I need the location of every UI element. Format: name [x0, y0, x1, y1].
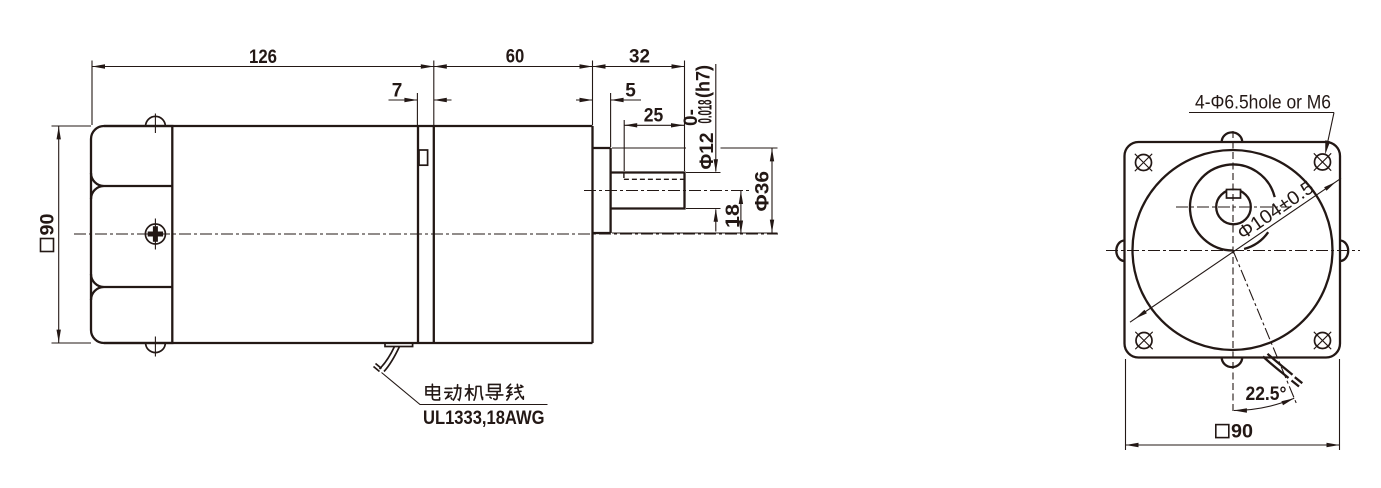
- front wires strand 1: [1263, 357, 1289, 379]
- corner hole TR: [1315, 154, 1331, 170]
- bottom tab: [1222, 358, 1243, 368]
- label leader: [1326, 113, 1334, 151]
- corner hole TL: [1136, 155, 1152, 171]
- shaft centerline: [584, 190, 752, 192]
- shaft keyway flat hidden line: [624, 173, 684, 179]
- front wire stripped tip 1: [1292, 381, 1300, 387]
- gearhead right edge: [591, 126, 593, 343]
- svg-text:60: 60: [506, 47, 525, 68]
- dim text phi12 0/-0.018 (h7) rotated: [681, 65, 718, 170]
- dim phi12 h7: [686, 172, 721, 174]
- svg-text:UL1333,18AWG: UL1333,18AWG: [423, 408, 545, 429]
- svg-text:22.5°: 22.5°: [1246, 384, 1287, 405]
- svg-text:25: 25: [644, 106, 664, 127]
- svg-text:90: 90: [1231, 422, 1253, 443]
- svg-text:Φ36: Φ36: [753, 171, 774, 212]
- svg-text:32: 32: [629, 47, 650, 68]
- phillips screw circle: [145, 224, 165, 244]
- svg-text:90: 90: [38, 214, 59, 236]
- svg-text:5: 5: [625, 81, 636, 102]
- phillips screw cross: [148, 226, 163, 241]
- shaft boss circle arc small: [1244, 232, 1268, 249]
- motor body bottom edge: [104, 342, 593, 344]
- phillips screw vertical center mark: [154, 219, 156, 250]
- bottom screw center mark: [154, 337, 156, 357]
- svg-text:126: 126: [249, 47, 277, 68]
- dim square90 left: [52, 125, 92, 127]
- svg-text:(h7): (h7): [694, 65, 715, 98]
- 22.5 degree diagonal centerline: [1233, 251, 1296, 404]
- shaft boss circle arc main: [1190, 165, 1275, 251]
- dim text square90 rotated: [38, 214, 59, 252]
- top screw center mark: [154, 114, 156, 134]
- motor rear cap outline: [91, 126, 172, 343]
- right tab: [1340, 240, 1348, 261]
- dim extension at x684.5 (shaft end): [684, 61, 686, 172]
- output shaft boss: [593, 148, 611, 233]
- front wire stripped tip 2: [1295, 377, 1303, 383]
- bottom screw dome: [146, 343, 166, 353]
- output shaft: [611, 173, 685, 209]
- svg-text:7: 7: [392, 81, 403, 102]
- corner hole BL: [1136, 333, 1152, 349]
- label underline: [1189, 112, 1334, 114]
- shaft horizontal centerline front: [1176, 206, 1291, 208]
- motor centerline: [74, 233, 778, 235]
- svg-text:0.018: 0.018: [696, 100, 717, 124]
- dim 22.5 arc: [1234, 398, 1294, 410]
- dim square90 bottom: [1125, 359, 1127, 450]
- corner hole BR: [1315, 333, 1331, 349]
- motor lead wire strand 2: [384, 347, 400, 372]
- gearhead left edge: [433, 126, 435, 343]
- dim text square90 bottom: [1216, 422, 1253, 443]
- dim phi36: [612, 147, 686, 149]
- dim 126/60/32 main line: [92, 66, 685, 68]
- wire tip ticks: [374, 364, 382, 372]
- wire clamp under motor: [385, 343, 413, 347]
- front wires strand 2: [1268, 354, 1293, 375]
- motor lead wire strand 1: [380, 347, 395, 370]
- dim 25: [623, 120, 625, 171]
- cap segment joint upper: [91, 173, 172, 199]
- top screw dome: [146, 116, 166, 126]
- flange square: [1125, 142, 1341, 358]
- motor body circle: [1133, 150, 1333, 350]
- wire label leader: [382, 373, 548, 405]
- motor body right edge: [417, 126, 419, 343]
- dim phi104 line: [1130, 178, 1341, 322]
- dim extension at x433.8: [433, 61, 435, 126]
- left tab: [1116, 240, 1124, 261]
- cap segment joint lower: [91, 274, 172, 300]
- motor body top edge: [104, 125, 593, 127]
- svg-text:4-Φ6.5hole or M6: 4-Φ6.5hole or M6: [1195, 93, 1331, 114]
- dim extension at x92: [91, 61, 93, 126]
- shaft circle: [1216, 190, 1251, 225]
- dim 5: [610, 93, 612, 147]
- horizontal centerline front: [1106, 250, 1360, 252]
- label 电动机导线 (drawn strokes): [426, 384, 523, 400]
- dim 18: [740, 191, 742, 234]
- arrows main dim line: [92, 64, 105, 68]
- svg-text:Φ12: Φ12: [697, 133, 718, 170]
- dim 7: [416, 93, 418, 125]
- shaft keyway: [1227, 190, 1241, 199]
- top tab: [1222, 132, 1243, 142]
- dim extension at x592.5: [592, 61, 594, 126]
- terminal clip: [419, 150, 428, 165]
- svg-text:18: 18: [723, 204, 744, 228]
- vertical centerline front: [1232, 131, 1234, 413]
